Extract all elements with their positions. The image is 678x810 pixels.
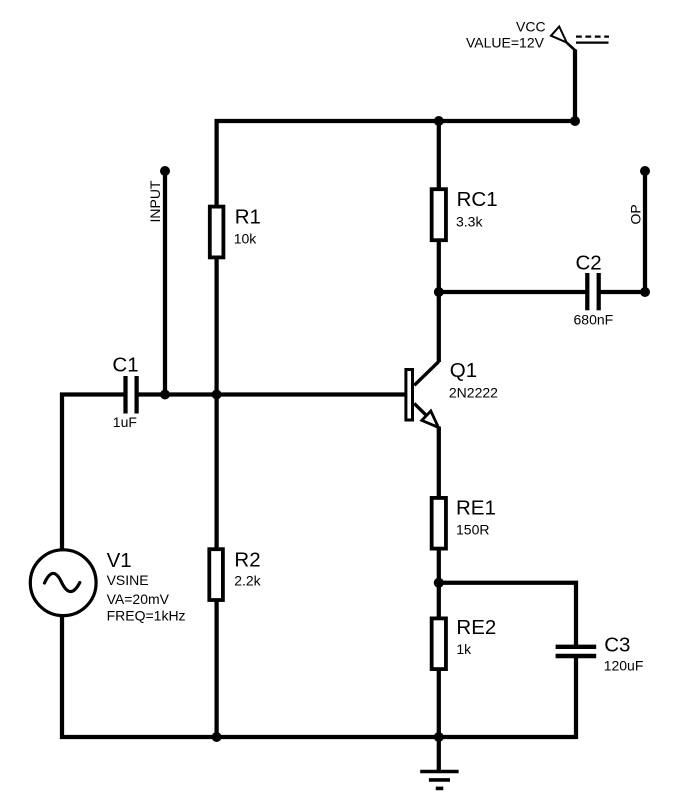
svg-text:V1: V1 bbox=[107, 549, 132, 572]
svg-text:VSINE: VSINE bbox=[107, 572, 149, 588]
svg-text:3.3k: 3.3k bbox=[456, 214, 483, 230]
svg-text:VA=20mV: VA=20mV bbox=[107, 591, 170, 607]
svg-text:FREQ=1kHz: FREQ=1kHz bbox=[107, 607, 186, 623]
svg-text:RE1: RE1 bbox=[456, 497, 496, 520]
svg-text:R2: R2 bbox=[234, 549, 260, 572]
svg-text:R1: R1 bbox=[235, 206, 261, 229]
svg-text:INPUT: INPUT bbox=[147, 180, 163, 222]
svg-text:VCC: VCC bbox=[516, 19, 546, 35]
svg-text:1k: 1k bbox=[456, 641, 472, 657]
svg-text:1uF: 1uF bbox=[113, 414, 137, 430]
svg-text:10k: 10k bbox=[234, 231, 258, 247]
svg-text:150R: 150R bbox=[456, 522, 489, 538]
svg-text:C2: C2 bbox=[576, 251, 602, 274]
svg-text:OP: OP bbox=[627, 204, 643, 224]
svg-text:C1: C1 bbox=[112, 353, 138, 376]
svg-text:RC1: RC1 bbox=[457, 188, 498, 211]
svg-text:680nF: 680nF bbox=[574, 312, 614, 328]
svg-text:RE2: RE2 bbox=[456, 616, 496, 639]
svg-text:2.2k: 2.2k bbox=[234, 573, 261, 589]
svg-text:C3: C3 bbox=[604, 634, 630, 657]
svg-text:2N2222: 2N2222 bbox=[449, 385, 498, 401]
svg-text:Q1: Q1 bbox=[450, 359, 477, 382]
svg-text:120uF: 120uF bbox=[604, 657, 644, 673]
svg-text:VALUE=12V: VALUE=12V bbox=[466, 35, 545, 51]
